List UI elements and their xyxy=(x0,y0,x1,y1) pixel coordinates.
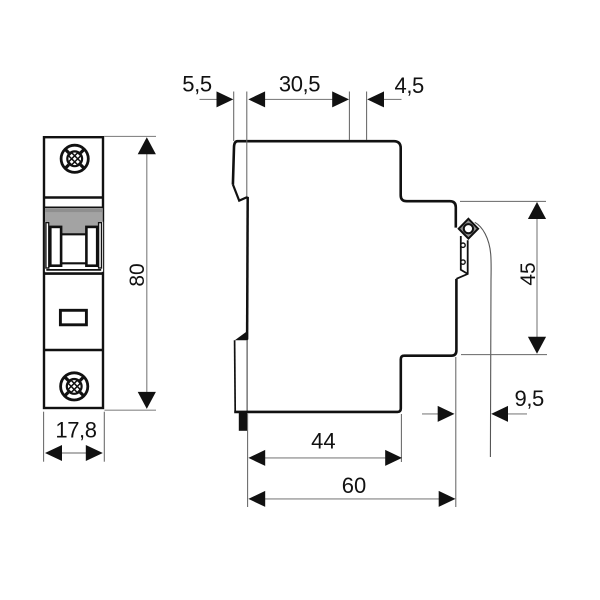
fixed DIN claw (black wedge) xyxy=(235,331,248,341)
svg-text:9,5: 9,5 xyxy=(515,386,545,411)
bottom edge with step and right face xyxy=(234,279,456,412)
extension line A (front face) xyxy=(233,92,235,142)
clip rivet hole 1 xyxy=(461,243,465,247)
arrowhead 30,5 left xyxy=(248,91,265,107)
svg-text:5,5: 5,5 xyxy=(182,72,212,97)
bottom terminal screw xyxy=(61,373,88,400)
side view top and right outline xyxy=(233,141,456,227)
extension line C xyxy=(348,92,350,141)
extension line right (x 455.8) xyxy=(455,357,457,507)
arrowhead down xyxy=(138,392,156,409)
extension line bottom xyxy=(461,354,547,356)
divider line above bottom terminal xyxy=(44,349,103,351)
extension line left xyxy=(43,412,45,462)
toggle handle top edge xyxy=(62,233,86,235)
clip strip left line xyxy=(461,236,468,274)
arrow 9,5 right (pointing left) xyxy=(500,413,527,415)
clip pivot diamond xyxy=(459,219,478,239)
right side channel xyxy=(99,223,102,268)
arrowhead right xyxy=(86,445,103,461)
toggle recess gray band xyxy=(45,208,103,234)
dimension line 80 xyxy=(146,139,148,407)
dimension line 17,8 xyxy=(60,452,88,454)
white cutouts at sides of recess xyxy=(45,222,50,272)
dimension 5,5 tail line xyxy=(200,98,219,100)
toggle recess bottom line xyxy=(46,269,101,271)
front view body outline xyxy=(44,137,103,408)
arrowhead down xyxy=(528,337,546,354)
divider line under terminal section xyxy=(44,196,103,199)
front face xyxy=(246,197,249,340)
dimension line 60 xyxy=(250,498,454,500)
arrowhead up xyxy=(138,137,156,154)
svg-text:45: 45 xyxy=(517,262,540,285)
extension line top xyxy=(460,200,546,202)
extension line B (lip rear) xyxy=(246,92,248,197)
arrowhead 44 left xyxy=(248,450,265,466)
arrowhead 30,5 right xyxy=(332,91,349,107)
svg-text:80: 80 xyxy=(126,263,149,286)
thin line above toggle recess xyxy=(44,206,103,208)
toggle handle bottom edge xyxy=(62,262,86,264)
clip strip right line with jog xyxy=(456,240,467,279)
left side channel xyxy=(46,223,49,268)
clip swing arc xyxy=(475,222,491,457)
arrow 9,5 left (pointing right) xyxy=(422,413,440,415)
svg-text:30,5: 30,5 xyxy=(279,72,320,97)
right toggle wing xyxy=(86,227,97,266)
movable DIN claw tab (black) xyxy=(239,413,247,431)
dimension line 45 xyxy=(536,204,538,353)
svg-text:44: 44 xyxy=(311,429,335,454)
extension line bottom xyxy=(105,409,157,411)
clip rivet hole 2 xyxy=(461,260,465,264)
arrowhead 5,5 xyxy=(217,91,234,107)
left toggle wing xyxy=(50,227,61,266)
arrowhead up xyxy=(528,202,546,219)
front lip bottom notch xyxy=(233,185,248,201)
dimension line 44 xyxy=(250,457,400,459)
extension line D xyxy=(366,92,368,141)
arrowhead left xyxy=(45,445,62,461)
rail groove inner line xyxy=(246,340,248,411)
extension line right xyxy=(103,412,105,462)
label window xyxy=(60,310,86,325)
arrowhead 60 left xyxy=(248,491,265,507)
dimension 4,5 tail line xyxy=(383,98,402,100)
toggle recess darker top strip xyxy=(45,208,103,212)
dimension line 30,5 xyxy=(250,98,347,100)
arrowhead 4,5 xyxy=(367,91,384,107)
svg-text:17,8: 17,8 xyxy=(55,418,96,443)
extension line mid (x 401.4) xyxy=(400,414,402,462)
svg-text:60: 60 xyxy=(342,473,366,498)
svg-text:4,5: 4,5 xyxy=(395,73,425,98)
extension line top xyxy=(104,135,156,137)
arrowhead 60 right xyxy=(439,491,456,507)
extension line left (x 247.6) xyxy=(247,414,249,508)
clip pivot hole xyxy=(464,224,473,233)
lower front edge xyxy=(234,340,237,411)
divider line under toggle section xyxy=(44,272,103,275)
arrowhead 44 right xyxy=(385,450,402,466)
